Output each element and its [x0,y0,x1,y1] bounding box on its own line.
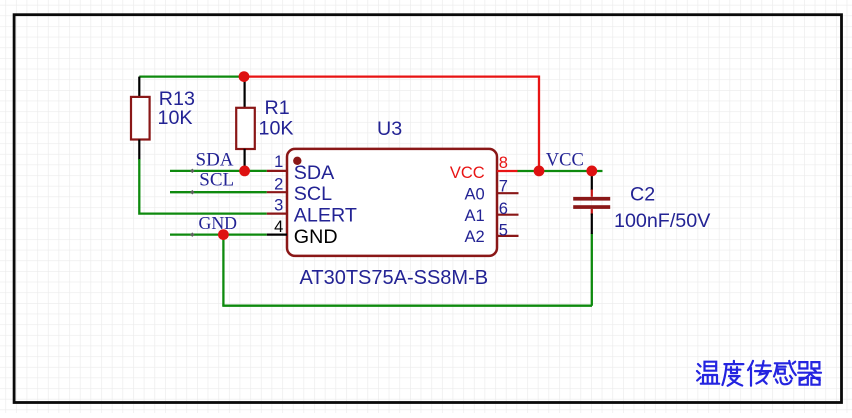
svg-text:6: 6 [499,200,508,218]
svg-text:A0: A0 [465,186,485,204]
svg-text:C2: C2 [630,184,655,206]
wire net SDA [170,170,267,172]
pin 7 lead [497,192,519,194]
svg-text:10K: 10K [259,118,294,140]
glyph 感 [774,361,796,384]
svg-text:R1: R1 [265,97,290,119]
wire net SCL [170,191,267,193]
svg-text:GND: GND [294,226,338,248]
wire VCC top (green segment R13 to junction) [139,75,244,77]
svg-text:SCL: SCL [294,183,332,205]
pin 4 lead [267,234,287,236]
glyph 器 [798,362,821,385]
svg-text:1: 1 [274,153,283,171]
svg-text:7: 7 [499,178,508,196]
wire net VCC at pin8 [517,170,602,172]
svg-text:4: 4 [274,218,283,236]
wire net ALERT (from R13 bottom to pin3) [139,159,266,214]
svg-text:5: 5 [499,222,508,240]
glyph 温 [697,362,719,384]
svg-text:A2: A2 [465,228,485,246]
svg-text:8: 8 [499,154,508,172]
svg-text:SDA: SDA [196,150,234,171]
svg-text:SCL: SCL [199,169,234,190]
svg-text:2: 2 [274,175,283,193]
pin 5 lead [497,235,519,237]
net anchor mark SDA [190,169,195,174]
title 温度传感器 (drawn glyphs) [697,361,821,386]
junction C2 top [586,166,597,177]
pin 8 lead [497,170,518,172]
resistor R13 [131,77,150,160]
junction VCC column/pin8 [534,166,545,177]
svg-text:10K: 10K [158,107,193,129]
resistor R1 [236,77,255,171]
glyph 度 [722,361,743,386]
svg-text:100nF/50V: 100nF/50V [614,210,711,232]
svg-text:SDA: SDA [294,162,335,184]
net anchor mark GND [190,232,195,237]
svg-text:VCC: VCC [450,164,485,182]
pin1 marker dot [293,157,301,165]
pin 1 lead [267,170,287,172]
svg-text:U3: U3 [377,118,402,140]
svg-text:VCC: VCC [546,151,584,171]
pin 6 lead [497,214,519,216]
net anchor mark SCL [190,190,195,195]
wire GND vertical drop [222,235,224,306]
svg-text:A1: A1 [465,207,485,225]
pin 2 lead [267,191,287,193]
svg-text:ALERT: ALERT [294,204,357,226]
op-amp U3 body [287,149,497,256]
svg-text:3: 3 [274,197,283,215]
wire GND rise to C2 [591,234,593,306]
capacitor C2 [573,172,610,234]
junction top (R1/VCC rail) [239,71,250,82]
junction SDA/R1 [239,166,250,177]
junction GND drop [218,229,229,240]
wire GND bottom run [222,305,592,307]
pin 3 lead [267,213,287,215]
wire net GND [170,233,267,235]
svg-text:GND: GND [199,213,238,233]
glyph 传 [748,361,771,386]
svg-text:AT30TS75A-SS8M-B: AT30TS75A-SS8M-B [300,267,489,289]
wire VCC top (red segment to IC pin8 column) [244,77,539,171]
